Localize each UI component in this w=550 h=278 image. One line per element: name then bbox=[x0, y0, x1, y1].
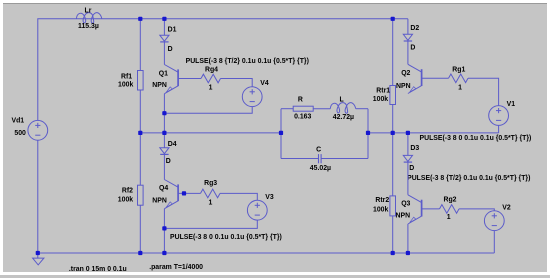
svg-text:100k: 100k bbox=[373, 207, 388, 214]
wire Q4 collector bbox=[163, 154, 165, 179]
svg-text:PULSE(-3 8 0 0.1u 0.1u {0.5*T}: PULSE(-3 8 0 0.1u 0.1u {0.5*T} {T}) bbox=[420, 135, 532, 142]
wire Q3 base bbox=[422, 208, 440, 210]
wire tank left vertical bbox=[280, 109, 282, 159]
wire V3 bottom to emitter node bbox=[164, 220, 257, 228]
wire C to tank right bbox=[321, 158, 368, 160]
junction top rail Rf1 bbox=[138, 17, 142, 21]
svg-text:V3: V3 bbox=[265, 194, 274, 201]
wire Q3 emitter column bbox=[407, 224, 409, 253]
svg-text:PULSE(-3 8 {T/2} 0.1u 0.1u {0.: PULSE(-3 8 {T/2} 0.1u 0.1u {0.5*T} {T}) bbox=[407, 175, 530, 182]
wire V2 bottom bbox=[493, 231, 495, 253]
svg-text:V1: V1 bbox=[507, 101, 516, 108]
inductor Lr bbox=[76, 13, 101, 24]
wire Rf2 bottom bbox=[139, 205, 141, 253]
svg-text:Rtr1: Rtr1 bbox=[376, 88, 390, 95]
wire Rg3 to V3 bbox=[220, 193, 257, 200]
svg-text:C: C bbox=[316, 146, 321, 153]
svg-text:Rg3: Rg3 bbox=[204, 180, 217, 187]
wire Rf1 top bbox=[139, 19, 141, 71]
svg-text:500: 500 bbox=[14, 130, 26, 137]
junction Q1 emitter node bbox=[162, 111, 166, 115]
junction mid rail tank right bbox=[366, 131, 370, 135]
svg-text:42.72µ: 42.72µ bbox=[333, 114, 354, 121]
resistor Rg4 bbox=[201, 74, 221, 83]
svg-text:Rg1: Rg1 bbox=[452, 67, 465, 74]
diode D1 bbox=[160, 35, 169, 42]
inductor L bbox=[330, 103, 355, 114]
wire D4 anode bbox=[163, 133, 165, 148]
capacitor C bbox=[319, 154, 322, 163]
wire Q4 base bbox=[178, 192, 200, 194]
voltage source V1 bbox=[489, 106, 509, 126]
transistor Q4 bbox=[164, 180, 178, 209]
voltage source V3 bbox=[247, 200, 267, 220]
resistor Rg2 bbox=[440, 205, 460, 214]
wire Rtr2 bottom bbox=[392, 216, 394, 253]
svg-text:100k: 100k bbox=[118, 81, 133, 88]
wire bottom rail bbox=[38, 252, 495, 254]
wire Q4 emitter column bbox=[163, 209, 165, 253]
wire Q2 base bbox=[422, 77, 449, 79]
svg-text:1: 1 bbox=[209, 200, 213, 207]
junction mid rail Rtr bbox=[391, 131, 395, 135]
svg-text:1: 1 bbox=[458, 85, 462, 92]
wire D3 anode bbox=[407, 133, 409, 156]
transistor Q3 bbox=[408, 195, 422, 224]
svg-text:NPN: NPN bbox=[152, 82, 167, 89]
wire Q3 collector bbox=[407, 162, 409, 195]
junction mid rail Rf bbox=[138, 131, 142, 135]
svg-text:115.3µ: 115.3µ bbox=[78, 23, 99, 30]
svg-text:Rg4: Rg4 bbox=[205, 66, 218, 73]
diode D4 bbox=[160, 148, 169, 155]
svg-text:Q1: Q1 bbox=[159, 71, 168, 78]
junction bottom rail Q4 bbox=[162, 251, 166, 255]
junction Q4 base bbox=[182, 191, 186, 195]
svg-text:V2: V2 bbox=[502, 205, 511, 212]
wire Rf1 bottom bbox=[139, 90, 141, 133]
resistor Rg1 bbox=[449, 74, 469, 83]
wire mid rail left bbox=[140, 132, 281, 134]
wire top rail bbox=[38, 19, 408, 121]
wire Q1 base bbox=[178, 78, 201, 80]
resistor R bbox=[293, 106, 313, 111]
svg-text:NPN: NPN bbox=[396, 212, 411, 219]
junction mid rail D3 bbox=[406, 131, 410, 135]
svg-text:100k: 100k bbox=[118, 196, 133, 203]
ground bbox=[33, 253, 44, 265]
resistor Rf2 bbox=[138, 185, 144, 205]
svg-text:D4: D4 bbox=[168, 141, 177, 148]
svg-text:PULSE(-3 8 0 0.1u 0.1u {0.5*T}: PULSE(-3 8 0 0.1u 0.1u {0.5*T} {T}) bbox=[170, 234, 282, 241]
diode D3 bbox=[403, 155, 412, 162]
wire V4 bottom to emitter node bbox=[164, 107, 252, 114]
voltage source V4 bbox=[242, 87, 262, 107]
svg-text:Q2: Q2 bbox=[401, 70, 410, 77]
svg-text:.param T=1/4000: .param T=1/4000 bbox=[149, 264, 203, 271]
wire V1 bottom bbox=[498, 125, 500, 132]
svg-text:D2: D2 bbox=[410, 25, 419, 32]
svg-text:45.02µ: 45.02µ bbox=[310, 165, 331, 172]
svg-text:PULSE(-3 8 {T/2} 0.1u 0.1u {0.: PULSE(-3 8 {T/2} 0.1u 0.1u {0.5*T} {T}) bbox=[186, 58, 309, 65]
junction bottom rail ground bbox=[36, 251, 40, 255]
junction mid rail tank left bbox=[279, 131, 283, 135]
svg-text:R: R bbox=[298, 96, 303, 103]
diode D2 bbox=[403, 34, 412, 41]
junction Q4 emitter node bbox=[162, 226, 166, 230]
svg-text:Rtr2: Rtr2 bbox=[375, 197, 389, 204]
svg-text:Q4: Q4 bbox=[159, 185, 168, 192]
wire Q2 collector bbox=[407, 41, 409, 64]
wire Q1 emitter column bbox=[163, 94, 165, 133]
svg-text:Q3: Q3 bbox=[401, 201, 410, 208]
svg-text:D: D bbox=[409, 165, 414, 172]
svg-text:Rg2: Rg2 bbox=[444, 197, 457, 204]
svg-text:NPN: NPN bbox=[152, 198, 167, 205]
svg-text:0.163: 0.163 bbox=[294, 114, 311, 121]
junction bottom rail Rf2 bbox=[138, 251, 142, 255]
wire L to tank right bbox=[356, 108, 368, 110]
svg-text:Vd1: Vd1 bbox=[12, 118, 25, 125]
junction top rail D1 bbox=[162, 17, 166, 21]
junction top rail Rtr1 bbox=[391, 17, 395, 21]
junction mid rail D4 bbox=[162, 131, 166, 135]
wire mid rail right bbox=[368, 132, 499, 134]
voltage source V2 bbox=[484, 211, 504, 231]
junction bottom rail Q3 bbox=[406, 251, 410, 255]
transistor Q2 bbox=[408, 64, 422, 93]
svg-text:V4: V4 bbox=[260, 80, 269, 87]
svg-text:D: D bbox=[168, 46, 173, 53]
resistor Rf1 bbox=[138, 71, 144, 91]
wire tank right vertical bbox=[367, 109, 369, 159]
wire Rtr1 top bbox=[392, 19, 394, 86]
wire D2 anode bbox=[407, 19, 409, 35]
wire Rf2 top bbox=[139, 133, 141, 185]
voltage source Vd1 bbox=[28, 120, 48, 140]
resistor Rtr2 bbox=[390, 196, 396, 216]
wire Rg2 to V2 bbox=[459, 209, 494, 211]
svg-text:D1: D1 bbox=[168, 27, 177, 34]
svg-text:Lr: Lr bbox=[85, 8, 92, 15]
wire R to L bbox=[313, 108, 330, 110]
wire Rtr1 bottom bbox=[392, 105, 394, 133]
resistor Rg3 bbox=[201, 189, 221, 198]
junction bottom rail Rtr2 bbox=[391, 251, 395, 255]
wire Vd1 bottom bbox=[37, 140, 39, 253]
svg-text:1: 1 bbox=[447, 214, 451, 221]
svg-text:Rf2: Rf2 bbox=[122, 187, 133, 194]
svg-text:D: D bbox=[410, 45, 415, 52]
wire D1 anode bbox=[163, 19, 165, 35]
svg-text:.tran 0 15m 0 0.1u: .tran 0 15m 0 0.1u bbox=[69, 266, 127, 273]
wire Q1 collector bbox=[163, 42, 165, 65]
transistor Q1 bbox=[164, 65, 178, 94]
svg-text:100k: 100k bbox=[373, 96, 388, 103]
wire tank bottom left bbox=[281, 158, 319, 160]
svg-text:L: L bbox=[340, 96, 344, 103]
wire Rg1 to V1 bbox=[468, 78, 499, 105]
svg-text:1: 1 bbox=[209, 85, 213, 92]
svg-text:D: D bbox=[166, 158, 171, 165]
svg-text:NPN: NPN bbox=[396, 83, 411, 90]
wire Rtr2 top bbox=[392, 133, 394, 196]
svg-text:Rf1: Rf1 bbox=[121, 73, 132, 80]
resistor Rtr1 bbox=[390, 86, 396, 105]
wire Rg4 to V4 bbox=[221, 79, 253, 87]
wire tank top left bbox=[281, 108, 293, 110]
svg-text:D3: D3 bbox=[410, 145, 419, 152]
